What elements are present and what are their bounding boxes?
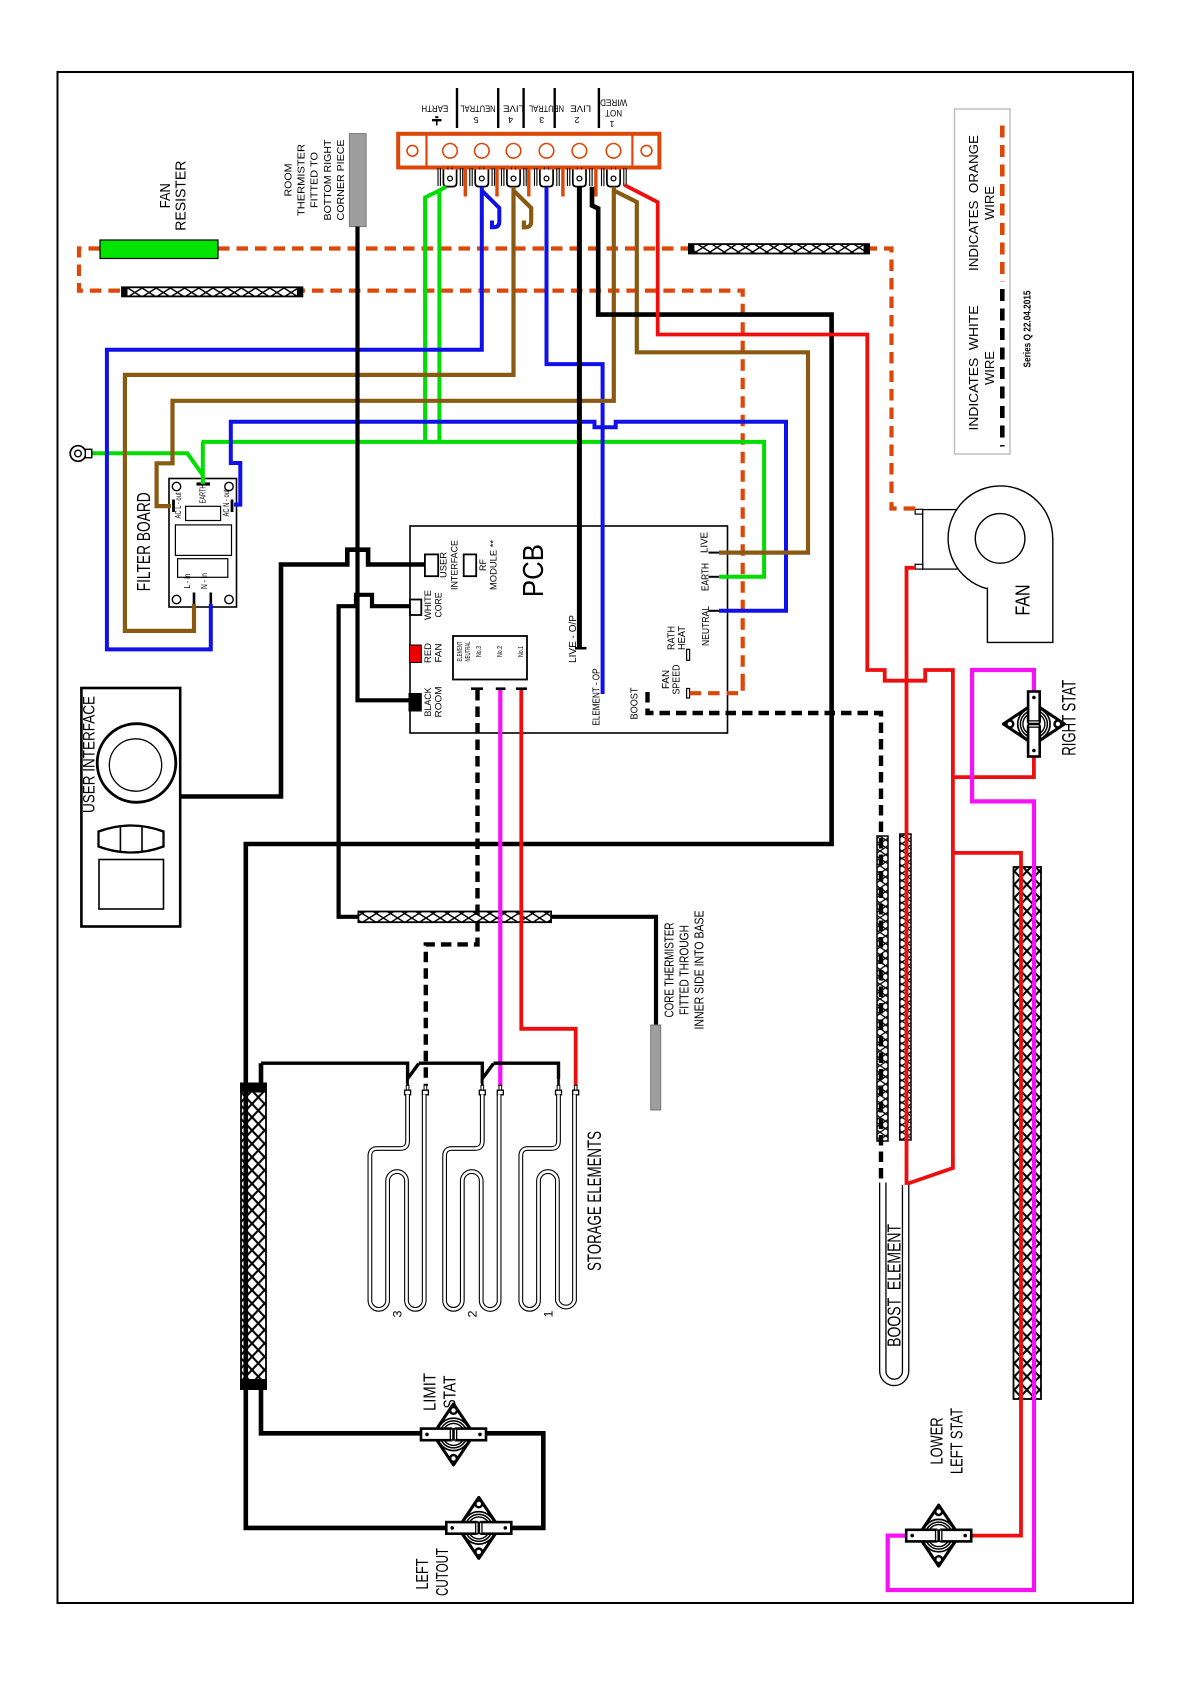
boost sheath bar (right, red wire) bbox=[900, 834, 911, 1140]
fan resister (green) bbox=[100, 240, 218, 259]
legend box bbox=[955, 109, 1011, 454]
element sheath bar (right tall) bbox=[1014, 867, 1042, 1399]
blue wire hook at terminal 5 bbox=[482, 191, 500, 228]
svg-text:BOTTOM RIGHT: BOTTOM RIGHT bbox=[323, 140, 334, 221]
svg-text:NOT: NOT bbox=[605, 108, 622, 118]
svg-text:FILTER BOARD: FILTER BOARD bbox=[134, 492, 154, 591]
wire: sheath bar to core thermister bbox=[551, 917, 656, 1026]
storage element 2 bbox=[445, 1079, 504, 1318]
PCB board bbox=[410, 526, 728, 733]
wire: limit stat to left cutout bbox=[486, 1433, 543, 1528]
PCB live pin bbox=[709, 552, 720, 554]
PCB element connector bbox=[453, 636, 527, 680]
user interface display bbox=[99, 860, 164, 910]
element sheath bar (middle) bbox=[358, 912, 551, 923]
svg-text:NEUTRAL: NEUTRAL bbox=[701, 606, 712, 646]
svg-text:2: 2 bbox=[574, 115, 580, 124]
wire: green earth legs from terminal bbox=[439, 187, 446, 442]
svg-text:LOWER: LOWER bbox=[927, 1418, 947, 1465]
boost sheath bar (left, dashed wire) bbox=[877, 836, 888, 1141]
wire: black live terminal 2 to PCB live-o/p bbox=[577, 187, 582, 648]
storage element 1 bbox=[521, 1079, 579, 1318]
wire: element bus to limit stat bbox=[261, 1063, 421, 1433]
svg-text:WHITE: WHITE bbox=[423, 590, 434, 620]
limit stat bbox=[421, 1404, 486, 1465]
terminal block TB1 bbox=[398, 134, 659, 168]
svg-text:5: 5 bbox=[473, 115, 479, 124]
svg-text:LIVE: LIVE bbox=[700, 532, 711, 553]
svg-text:USER: USER bbox=[439, 552, 450, 578]
ring terminal (earth lug) bbox=[70, 446, 92, 462]
wire: brown live terminal 4 to filter L-in bbox=[125, 187, 514, 631]
right stat bbox=[1003, 692, 1064, 757]
element sheath bar (left tall) bbox=[241, 1086, 266, 1389]
svg-text:NEUTRAL: NEUTRAL bbox=[529, 104, 564, 114]
live-o/p end bar bbox=[575, 647, 587, 650]
svg-text:INDICATES WHITE: INDICATES WHITE bbox=[966, 305, 981, 430]
svg-text:STAT: STAT bbox=[440, 1375, 460, 1408]
svg-text:LIVE: LIVE bbox=[570, 104, 591, 114]
wire: green to ring terminal bbox=[92, 453, 203, 475]
filter pin AC N - out bbox=[231, 500, 234, 513]
svg-text:FAN: FAN bbox=[433, 643, 444, 662]
svg-text:THERMISTER: THERMISTER bbox=[297, 144, 308, 216]
wire: black dashed element no.3 feed bbox=[426, 690, 478, 1086]
svg-text:No.3: No.3 bbox=[476, 646, 483, 657]
sheath bar over orange wire (top left) bbox=[122, 287, 302, 296]
wire: green earth net horizontal bbox=[202, 442, 765, 577]
filter board bbox=[169, 479, 237, 608]
svg-text:AC N - out: AC N - out bbox=[222, 489, 231, 517]
wire: magenta element no.2 feed bbox=[498, 690, 502, 1086]
wire: blue neutral terminal 3 to PCB element-op bbox=[547, 187, 603, 694]
wire: blue PCB neutral to filter AC N - out bbox=[231, 422, 786, 611]
filter pin EARTH bbox=[197, 482, 211, 485]
svg-text:RESISTER: RESISTER bbox=[173, 161, 190, 231]
user interface box bbox=[81, 688, 180, 927]
brown wire hook at terminal 4 bbox=[514, 191, 532, 228]
svg-text:3: 3 bbox=[539, 115, 545, 124]
svg-text:PCB: PCB bbox=[518, 544, 550, 597]
svg-text:No.1: No.1 bbox=[518, 646, 525, 657]
PCB white/core connector bbox=[410, 600, 421, 616]
svg-text:BLACK: BLACK bbox=[423, 687, 434, 717]
svg-text:USER INTERFACE: USER INTERFACE bbox=[81, 696, 99, 813]
wire: orange dashed from fan resister left end to PCB fan-speed pin bbox=[79, 249, 743, 686]
PCB element pin bars bbox=[471, 687, 483, 690]
svg-text:INDICATES ORANGE: INDICATES ORANGE bbox=[966, 135, 981, 271]
label separator lines bbox=[456, 88, 458, 128]
svg-text:INTERFACE: INTERFACE bbox=[449, 540, 460, 590]
wire: black dashed boost from PCB to boost element bbox=[648, 692, 882, 1183]
PCB earth pin bbox=[709, 576, 720, 578]
svg-text:FITTED THROUGH: FITTED THROUGH bbox=[678, 925, 692, 1015]
wire: green to filter earth pin bbox=[201, 442, 205, 484]
PCB red/fan connector bbox=[410, 645, 422, 663]
PCB fan speed pin bbox=[687, 689, 690, 699]
svg-text:HEAT: HEAT bbox=[677, 626, 688, 650]
red branch down right sheath to lower left stat bbox=[953, 853, 1021, 1536]
svg-text:FITTED TO: FITTED TO bbox=[310, 152, 321, 208]
svg-text:EARTH: EARTH bbox=[198, 484, 207, 503]
room thermister (grey) bbox=[349, 134, 366, 227]
svg-text:NEUTRAL: NEUTRAL bbox=[461, 104, 496, 114]
svg-text:ROOM: ROOM bbox=[284, 164, 295, 197]
wire: orange dashed from fan resister right end to fan bbox=[218, 249, 892, 501]
svg-text:ELEMENT: ELEMENT bbox=[457, 641, 464, 661]
PCB rath heat pin bbox=[687, 649, 690, 660]
svg-text:RED: RED bbox=[423, 643, 434, 663]
terminal spade connectors bbox=[438, 168, 626, 187]
svg-text:4: 4 bbox=[507, 115, 513, 124]
PCB neutral pin bbox=[709, 610, 720, 612]
svg-text:FAN: FAN bbox=[661, 670, 672, 689]
red branch to right stat bottom terminal bbox=[953, 753, 1034, 777]
svg-text:LIVE: LIVE bbox=[503, 104, 524, 114]
left cutout bbox=[446, 1497, 511, 1558]
fan terminal (top) bbox=[915, 509, 923, 514]
boost element tube bbox=[883, 1183, 906, 1383]
svg-text:BOOST ELEMENT: BOOST ELEMENT bbox=[884, 1224, 904, 1347]
earth symbol (rotated) bbox=[432, 117, 442, 125]
svg-text:RF: RF bbox=[478, 559, 489, 571]
svg-text:BOOST: BOOST bbox=[630, 688, 641, 720]
element bus wire bbox=[261, 1061, 408, 1064]
svg-text:No.2: No.2 bbox=[497, 646, 504, 657]
wire: black live terminal 2 branch to left cutout bbox=[246, 187, 832, 1528]
legend orange dashed wire sample bbox=[1000, 126, 1005, 283]
svg-text:WIRE: WIRE bbox=[982, 186, 997, 220]
fan terminal (bottom) bbox=[915, 564, 923, 569]
svg-text:NEUTRAL: NEUTRAL bbox=[465, 641, 472, 661]
lower left stat bbox=[906, 1505, 971, 1566]
svg-text:LEFT STAT: LEFT STAT bbox=[947, 1408, 967, 1474]
svg-text:1: 1 bbox=[609, 119, 615, 128]
legend white dashed wire sample bbox=[1000, 289, 1005, 447]
svg-text:CORE: CORE bbox=[433, 593, 444, 618]
bus junction break at element 3 bbox=[408, 1062, 419, 1079]
user interface rocker control bbox=[99, 826, 164, 853]
sheath bar over orange wire (top middle) bbox=[689, 244, 869, 253]
svg-text:CORE THERMISTER: CORE THERMISTER bbox=[663, 923, 677, 1018]
svg-text:RIGHT STAT: RIGHT STAT bbox=[1059, 680, 1080, 756]
wire: red element no.1 feed bbox=[521, 690, 575, 1086]
PCB black/room connector bbox=[409, 694, 421, 712]
svg-text:STORAGE ELEMENTS: STORAGE ELEMENTS bbox=[585, 1131, 606, 1271]
wire: user interface to PCB (with hop) bbox=[180, 550, 425, 797]
svg-text:SPEED: SPEED bbox=[672, 665, 683, 695]
PCB user interface connector bbox=[425, 554, 438, 576]
wire: room thermister to PCB black/room pin bbox=[358, 227, 410, 701]
svg-text:CORNER PIECE: CORNER PIECE bbox=[336, 139, 347, 220]
filter pin L - in bbox=[193, 593, 196, 608]
svg-text:WIRED: WIRED bbox=[600, 98, 627, 108]
svg-text:1: 1 bbox=[542, 1310, 556, 1317]
svg-text:EARTH: EARTH bbox=[421, 104, 448, 114]
svg-text:ROOM: ROOM bbox=[433, 686, 444, 717]
svg-text:LEFT: LEFT bbox=[412, 1558, 432, 1589]
user interface dial bbox=[97, 724, 176, 803]
svg-text:RATH: RATH bbox=[667, 626, 678, 650]
wire: magenta right stat loop to lower left stat bbox=[888, 670, 1034, 1590]
bus junction break at element 2 bbox=[482, 1062, 493, 1079]
wire: PCB white/core to element sheath (with hop) bbox=[339, 595, 410, 917]
wire: blue neutral terminal 5 to filter N-in bbox=[107, 187, 482, 650]
wire: red from terminal 1 to right stat and boost bbox=[625, 185, 953, 1184]
wire: brown from terminal 1 to filter AC L - out bbox=[157, 187, 614, 506]
svg-text:2: 2 bbox=[465, 1310, 479, 1317]
svg-text:INNER SIDE INTO BASE: INNER SIDE INTO BASE bbox=[693, 911, 707, 1030]
fan blower bbox=[923, 486, 1053, 643]
filter pin AC L - out bbox=[172, 500, 175, 513]
svg-text:L - in: L - in bbox=[183, 574, 192, 589]
svg-text:N - in: N - in bbox=[200, 573, 209, 589]
svg-text:MODULE **: MODULE ** bbox=[489, 540, 500, 590]
svg-text:FAN: FAN bbox=[157, 183, 174, 208]
core thermister (grey) bbox=[651, 1025, 661, 1110]
unused terminal screw stubs (orange) bbox=[465, 168, 596, 197]
svg-text:WIRE: WIRE bbox=[982, 351, 997, 385]
wire: brown from terminal 1 to PCB live pin bbox=[614, 191, 808, 553]
storage element 3 bbox=[370, 1079, 429, 1318]
svg-text:Series Q 22.04.2015: Series Q 22.04.2015 bbox=[1022, 290, 1034, 367]
wire: red from fan to boost element bbox=[907, 568, 916, 1185]
svg-text:FAN: FAN bbox=[1013, 585, 1035, 616]
svg-text:3: 3 bbox=[391, 1310, 405, 1317]
filter pin N - in bbox=[210, 593, 213, 608]
svg-text:CUTOUT: CUTOUT bbox=[432, 1548, 452, 1596]
svg-text:EARTH: EARTH bbox=[701, 563, 712, 591]
svg-text:AC L - out: AC L - out bbox=[174, 492, 183, 519]
svg-text:LIMIT: LIMIT bbox=[420, 1373, 440, 1411]
PCB RF module connector bbox=[464, 554, 477, 576]
